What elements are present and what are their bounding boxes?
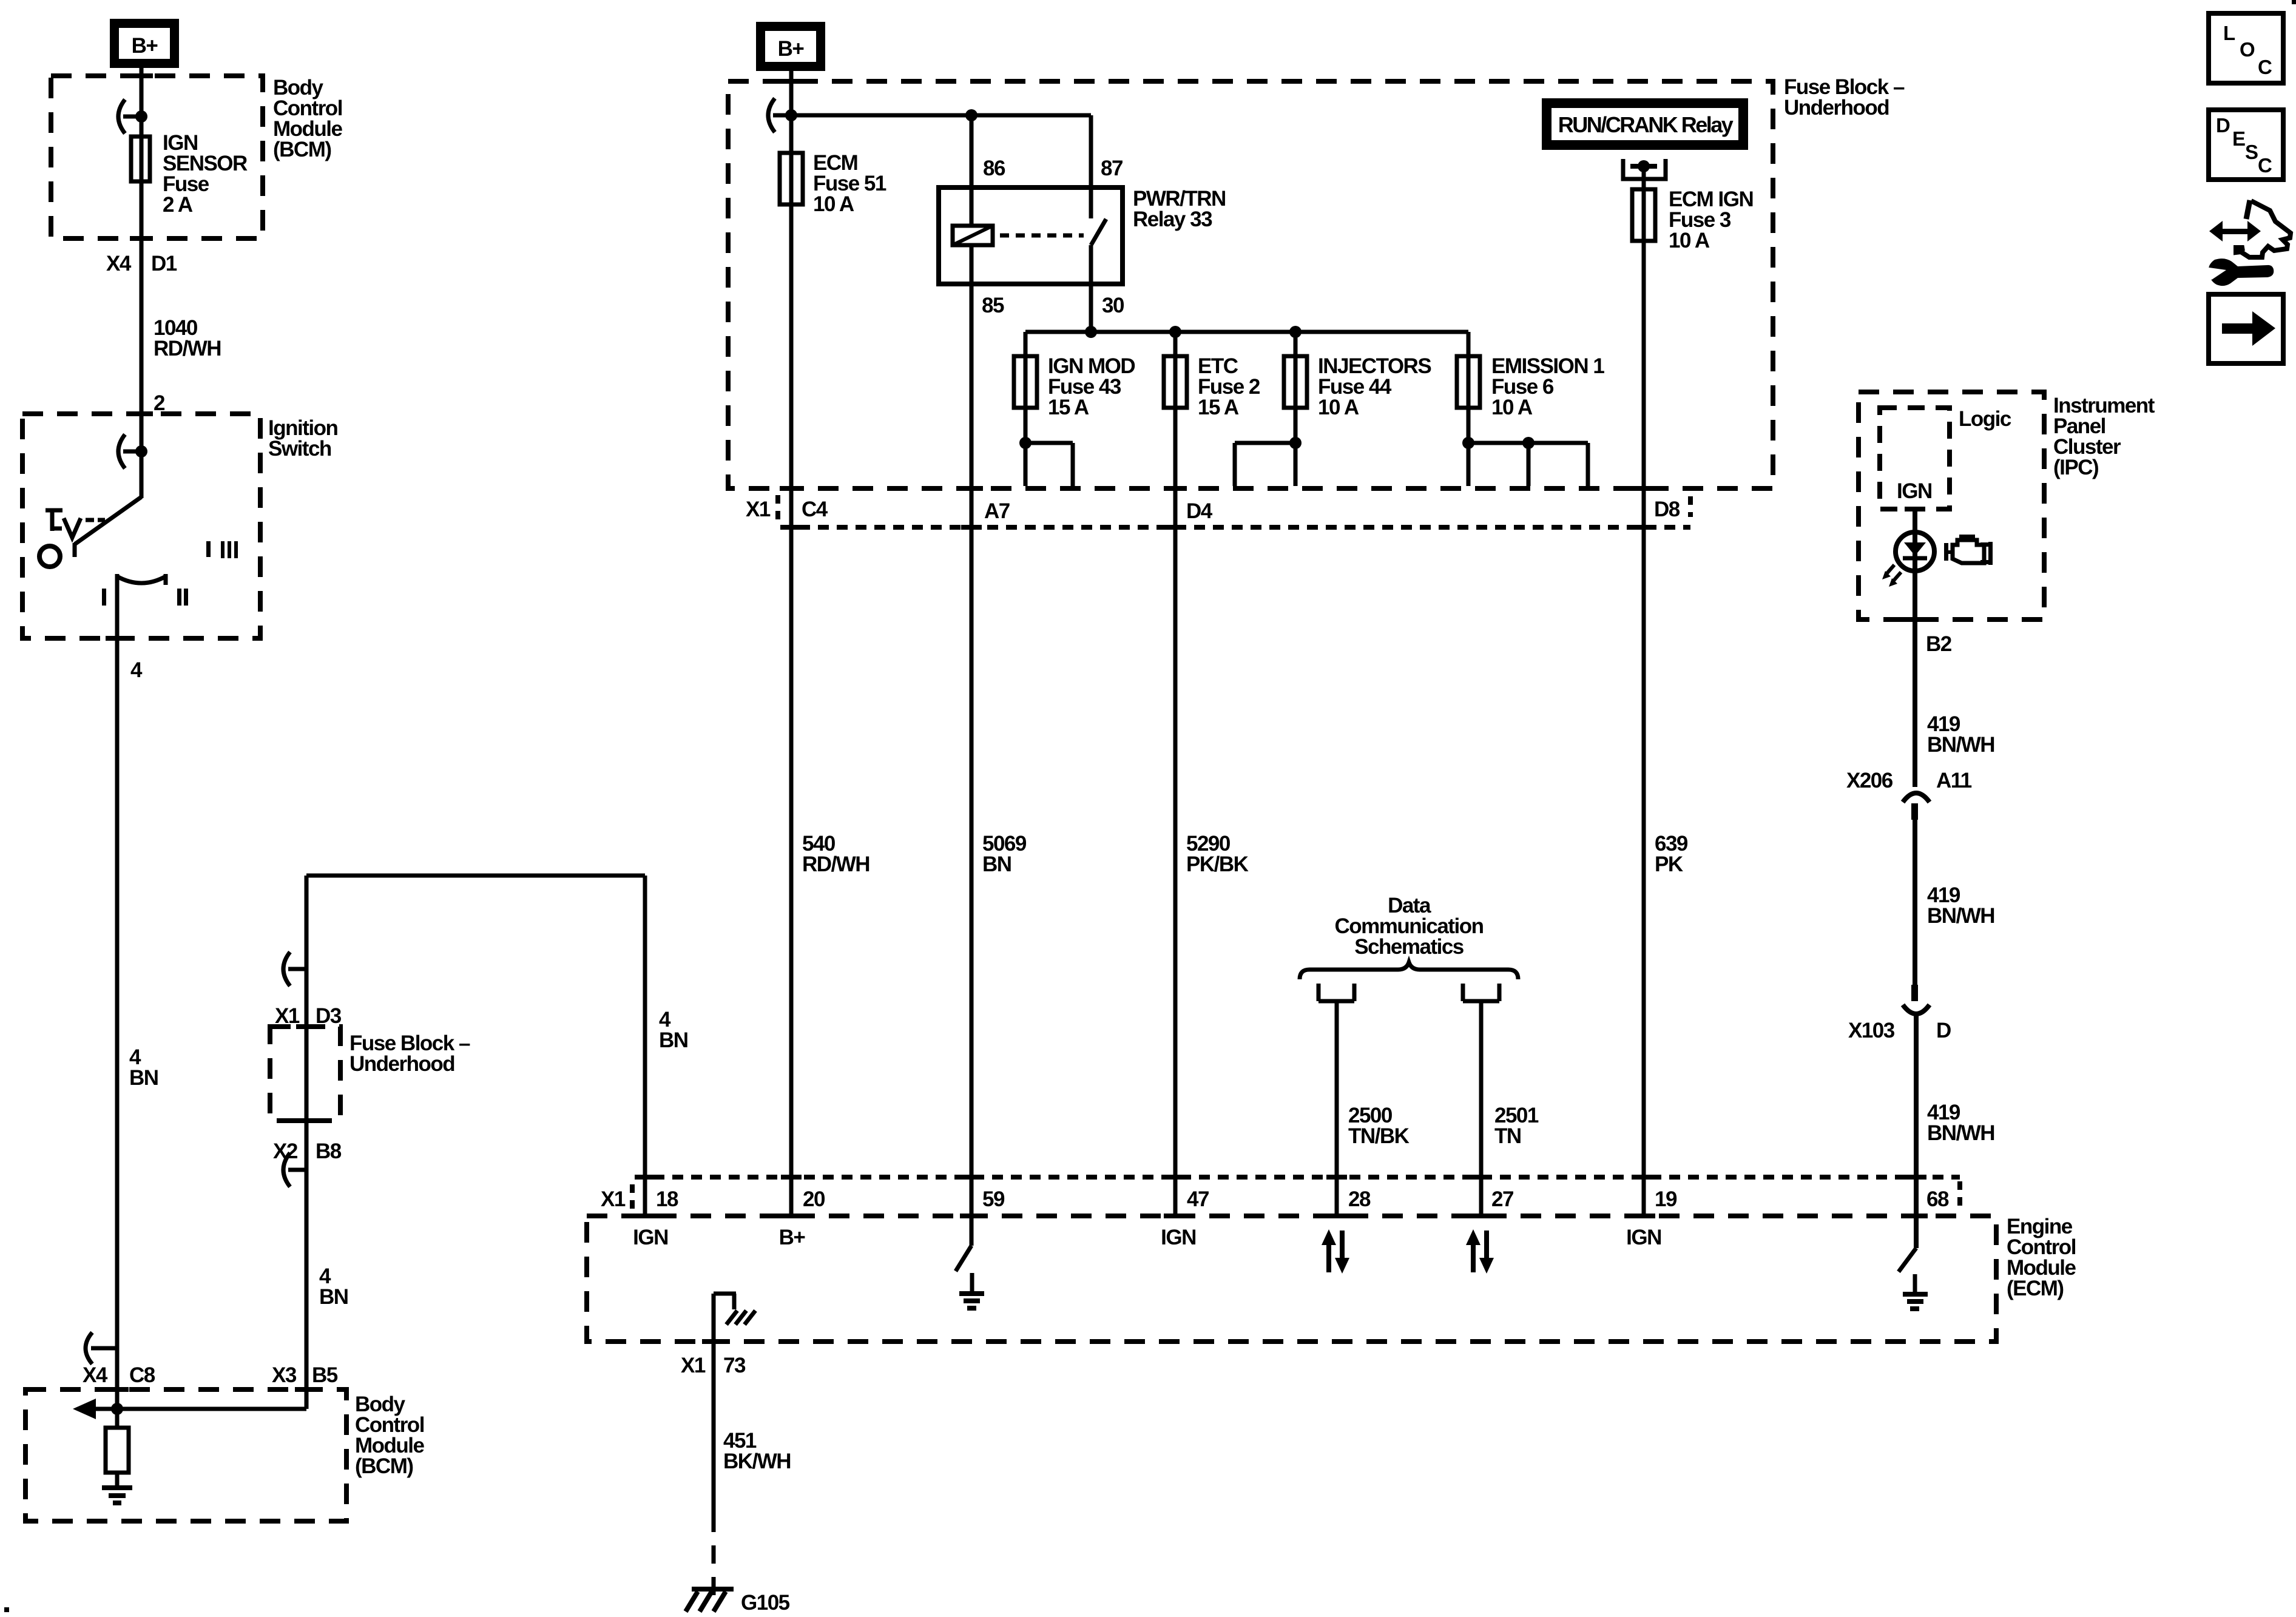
svg-text:BK/WH: BK/WH: [723, 1450, 791, 1473]
connector symbol X4 C8: [86, 1332, 117, 1364]
pin labels X1 D3: [275, 1004, 342, 1028]
Fuse Block Underhood main box: [728, 81, 1773, 488]
connector symbol X2 B8: [283, 1153, 306, 1187]
svg-text:BN: BN: [982, 852, 1011, 876]
wire to ECM pin 68: [1914, 1014, 1919, 1248]
ECM internal switch to ground pin 68: [1899, 1248, 1928, 1309]
relay link dashed: [1000, 234, 1084, 238]
position marks I III: [206, 541, 238, 558]
ground inside BCM: [102, 1488, 132, 1503]
wire label 5290 PK/BK: [1186, 832, 1249, 876]
svg-text:B2: B2: [1926, 632, 1952, 656]
ignition switch arm: [75, 497, 141, 557]
relay PWR/TRN Relay 33 box: [939, 187, 1123, 284]
svg-text:L: L: [2223, 22, 2235, 44]
svg-text:C: C: [2258, 56, 2272, 78]
wire relay output 30: [1089, 245, 1093, 332]
wire label 5069 BN: [982, 832, 1027, 876]
svg-text:C4: C4: [802, 498, 828, 521]
Body Control Module (BCM) top box: [51, 76, 263, 238]
label Instrument Panel Cluster (IPC): [2053, 394, 2155, 479]
svg-text:RUN/CRANK Relay: RUN/CRANK Relay: [1558, 112, 1734, 137]
svg-text:X1: X1: [601, 1187, 626, 1211]
svg-text:IGN: IGN: [633, 1226, 668, 1249]
ECM X1 connector row: [632, 1177, 1960, 1210]
svg-text:X1: X1: [746, 498, 771, 521]
pin labels X1 C4 A7 D4 D8: [746, 498, 1680, 523]
wire pin 73 to G105: [712, 1294, 716, 1514]
svg-text:10 A: 10 A: [1318, 396, 1359, 419]
connector symbol on B+ feed: [768, 98, 797, 132]
pin labels X1 73: [681, 1354, 746, 1377]
svg-text:B+: B+: [778, 37, 805, 61]
svg-text:85: 85: [982, 294, 1004, 317]
label EMISSION 1 Fuse 6 10 A: [1491, 354, 1604, 419]
svg-text:RD/WH: RD/WH: [802, 852, 869, 876]
wire horizontal link to ECM pin 18 branch: [306, 874, 645, 878]
fuse ETC Fuse 2 15 A: [1164, 332, 1187, 1216]
svg-text:2 A: 2 A: [163, 193, 193, 217]
svg-text:BN: BN: [129, 1066, 158, 1090]
wire label 419 BN/WH: [1927, 1101, 1994, 1145]
fuse ECM Fuse 51 10 A: [780, 153, 803, 204]
pin labels 86 87: [983, 157, 1123, 180]
page corner mark bottom-left: [4, 1607, 9, 1612]
page corner mark top-right: [2292, 0, 2296, 4]
svg-text:Underhood: Underhood: [349, 1052, 454, 1076]
svg-text:B8: B8: [316, 1139, 342, 1163]
pin labels 85 30: [982, 294, 1124, 317]
label IGN SENSOR Fuse 2 A: [163, 131, 248, 217]
label Engine Control Module (ECM): [2007, 1215, 2076, 1300]
ECM internal labels IGN B+ IGN IGN: [633, 1226, 1661, 1249]
wire label 4 BN (right branch): [319, 1264, 348, 1309]
svg-text:30: 30: [1102, 294, 1124, 317]
svg-text:IGN: IGN: [1161, 1226, 1196, 1249]
svg-text:B+: B+: [779, 1226, 806, 1249]
pin number labels: [601, 1187, 1949, 1211]
label Ignition Switch: [268, 416, 337, 461]
svg-text:87: 87: [1101, 157, 1123, 180]
svg-text:BN: BN: [659, 1028, 688, 1052]
wire label 2501 TN: [1494, 1104, 1539, 1148]
brace for data communication: [1300, 962, 1518, 979]
fuse IGN MOD Fuse 43 15 A: [1014, 332, 1073, 486]
svg-text:X206: X206: [1846, 769, 1893, 792]
svg-text:PK: PK: [1655, 852, 1683, 876]
data link terminal 1: [1319, 984, 1354, 1216]
data arrows pin 28: [1322, 1229, 1349, 1274]
wire to X103: [1913, 820, 1917, 985]
junction node at BCM: [111, 1403, 123, 1415]
label ECM IGN Fuse 3 10 A: [1669, 187, 1753, 252]
icon vehicle with double arrow and wrench: [2203, 200, 2291, 286]
pin labels X2 B8: [273, 1139, 342, 1163]
svg-text:A7: A7: [984, 499, 1010, 523]
fuse EMISSION 1 Fuse 6 10 A: [1457, 332, 1588, 486]
wire coil to ECM pin 59: [970, 245, 974, 1246]
svg-text:18: 18: [656, 1187, 678, 1211]
Logic box: [1880, 408, 1950, 509]
svg-text:D: D: [1936, 1019, 1951, 1042]
label PWR/TRN Relay 33: [1133, 187, 1226, 231]
Ignition Switch box: [22, 414, 260, 638]
wire bus to relay: [791, 113, 1091, 118]
wire label 2500 TN/BK: [1348, 1104, 1410, 1148]
label ECM Fuse 51 10 A: [813, 151, 886, 216]
ignition switch position glyph: [46, 510, 105, 538]
svg-text:4: 4: [130, 658, 143, 682]
svg-text:X4: X4: [83, 1363, 108, 1387]
wire label 419 BN/WH: [1927, 712, 1994, 757]
svg-text:S: S: [2245, 141, 2258, 163]
connector symbol inside ignition switch: [118, 434, 147, 468]
wire fuse bus: [1025, 330, 1468, 334]
wire label 540 RD/WH: [802, 832, 869, 876]
svg-text:B+: B+: [132, 34, 158, 58]
label Data Communication Schematics: [1335, 894, 1484, 959]
LED indicator: [1896, 532, 1934, 571]
svg-text:O: O: [2240, 38, 2255, 61]
svg-text:(IPC): (IPC): [2053, 456, 2098, 479]
svg-text:X1: X1: [681, 1354, 706, 1377]
wire B+ down to ECM pin 20: [789, 69, 794, 1216]
wire coil feed 86: [970, 115, 974, 226]
wire label 451 BK/WH: [723, 1429, 791, 1473]
data link terminal 2: [1463, 984, 1499, 1216]
wire down to fuse block pass-through: [305, 876, 309, 1409]
svg-text:BN/WH: BN/WH: [1927, 904, 1994, 928]
svg-text:(BCM): (BCM): [273, 138, 331, 161]
label IGN MOD Fuse 43 15 A: [1048, 354, 1135, 419]
ECM internal switch to ground pin 59: [956, 1246, 984, 1308]
ground G105: [686, 1589, 790, 1615]
label Body Control Module (BCM) bottom: [355, 1393, 425, 1478]
svg-text:Underhood: Underhood: [1784, 96, 1889, 120]
svg-text:TN/BK: TN/BK: [1348, 1124, 1410, 1148]
wire from B+ to ignition switch: [140, 68, 144, 498]
fuse INJECTORS Fuse 44 10 A: [1235, 332, 1307, 486]
switch contact arc: [117, 574, 166, 585]
fuse IGN SENSOR Fuse 2 A: [131, 137, 150, 181]
svg-text:D1: D1: [151, 252, 177, 275]
label ETC Fuse 2 15 A: [1198, 354, 1260, 419]
svg-text:Schematics: Schematics: [1354, 935, 1464, 959]
fuse ECM IGN Fuse 3 10 A: [1632, 189, 1655, 241]
icon LOC box: [2209, 13, 2283, 83]
relay coil: [953, 226, 993, 245]
junction node 86 branch: [965, 109, 977, 121]
relay terminal connector: [1623, 159, 1666, 1216]
svg-text:PK/BK: PK/BK: [1186, 852, 1249, 876]
svg-text:47: 47: [1187, 1187, 1209, 1211]
svg-text:10 A: 10 A: [1491, 396, 1533, 419]
connector symbol on BCM feed: [118, 100, 147, 133]
svg-text:73: 73: [723, 1354, 746, 1377]
svg-text:C8: C8: [129, 1363, 155, 1387]
svg-text:BN/WH: BN/WH: [1927, 733, 1994, 757]
Fuse Block Underhood pass-through box: [270, 1027, 340, 1121]
connector symbol X1 D3: [283, 952, 306, 986]
svg-text:(ECM): (ECM): [2007, 1277, 2064, 1300]
ignition switch pivot circle: [39, 546, 60, 567]
label Body Control Module (BCM): [273, 76, 343, 161]
Engine Control Module (ECM) box: [587, 1216, 1996, 1342]
Body Control Module (BCM) bottom box: [25, 1389, 346, 1521]
power symbol B+ (center feed): [756, 22, 825, 71]
wire internal BCM with arrow: [92, 1407, 306, 1411]
svg-text:RD/WH: RD/WH: [154, 337, 221, 360]
svg-text:A11: A11: [1936, 769, 1972, 792]
svg-text:86: 86: [983, 157, 1005, 180]
svg-text:X3: X3: [272, 1363, 297, 1387]
svg-text:68: 68: [1926, 1187, 1949, 1211]
wire down to ECM pin 18: [643, 876, 647, 1216]
label INJECTORS Fuse 44 10 A: [1318, 354, 1431, 419]
wire crossing ticks on dashed edges: [106, 76, 1928, 1389]
Instrument Panel Cluster (IPC) box: [1859, 392, 2044, 619]
svg-text:15 A: 15 A: [1048, 396, 1089, 419]
svg-text:B5: B5: [312, 1363, 338, 1387]
svg-text:D4: D4: [1186, 499, 1213, 523]
wire label 1040 RD/WH: [154, 316, 221, 360]
wire label 419 BN/WH: [1927, 883, 1994, 928]
connector X103 D: [1848, 985, 1951, 1042]
svg-text:X103: X103: [1848, 1019, 1895, 1042]
pin labels X4 D1: [106, 252, 177, 275]
svg-text:27: 27: [1491, 1187, 1513, 1211]
wire label 639 PK: [1655, 832, 1688, 876]
wire label 4 BN (pin 18): [659, 1008, 688, 1052]
label Fuse Block Underhood: [1784, 75, 1905, 120]
svg-text:Relay 33: Relay 33: [1133, 208, 1212, 231]
arrowhead continuation left: [73, 1399, 96, 1419]
icon arrow box: [2209, 294, 2283, 363]
engine icon: [1944, 535, 1993, 565]
svg-text:D8: D8: [1654, 498, 1680, 521]
svg-text:Switch: Switch: [268, 437, 331, 461]
svg-text:C: C: [2258, 154, 2272, 177]
svg-text:E: E: [2232, 127, 2246, 150]
svg-text:Logic: Logic: [1959, 407, 2011, 431]
svg-text:X4: X4: [106, 252, 132, 275]
svg-text:19: 19: [1655, 1187, 1677, 1211]
svg-text:(BCM): (BCM): [355, 1454, 413, 1478]
RUN/CRANK Relay label box: [1542, 98, 1748, 150]
fuse block X1 connector row: [778, 495, 1690, 527]
pin labels X4 C8 X3 B5: [83, 1363, 338, 1387]
LED light arrows: [1882, 565, 1901, 587]
label Fuse Block Underhood: [349, 1031, 470, 1076]
svg-text:D: D: [2216, 114, 2230, 137]
svg-text:IGN: IGN: [1626, 1226, 1661, 1249]
svg-text:20: 20: [803, 1187, 825, 1211]
svg-text:TN: TN: [1494, 1124, 1521, 1148]
svg-text:BN: BN: [319, 1285, 348, 1309]
relay switch arm: [1091, 219, 1106, 245]
position marks I II: [102, 589, 188, 606]
power symbol B+ (left feed): [110, 19, 179, 68]
icon DESC box: [2209, 110, 2283, 180]
svg-text:28: 28: [1348, 1187, 1371, 1211]
svg-text:59: 59: [982, 1187, 1005, 1211]
svg-text:G105: G105: [741, 1591, 790, 1615]
svg-text:10 A: 10 A: [1669, 229, 1710, 252]
data arrows pin 27: [1466, 1229, 1494, 1274]
svg-text:BN/WH: BN/WH: [1927, 1121, 1994, 1145]
svg-text:15 A: 15 A: [1198, 396, 1239, 419]
connector X206 A11: [1846, 769, 1972, 820]
internal fuse in BCM: [115, 1409, 120, 1485]
wire ignition switch output down to BCM: [115, 578, 120, 1409]
wire label 4 BN (left): [129, 1045, 158, 1090]
svg-text:10 A: 10 A: [813, 192, 854, 216]
wire IGN to LED: [1913, 509, 1917, 787]
ECM internal case ground pin 73: [714, 1294, 755, 1325]
wire switch feed 87: [1089, 115, 1093, 218]
junction nodes on fuse bus: [1085, 326, 1097, 338]
svg-text:IGN: IGN: [1897, 479, 1932, 503]
